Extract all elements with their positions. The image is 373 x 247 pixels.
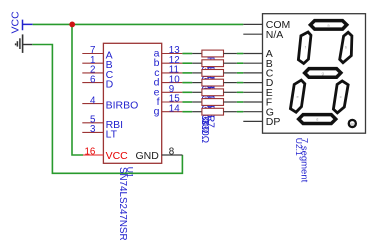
- power net VCC: [9, 11, 32, 34]
- pin E: [243, 91, 262, 93]
- pin 10 d: [162, 82, 183, 84]
- segment d: [296, 113, 338, 125]
- pin 13 a: [162, 53, 183, 55]
- pin A: [243, 53, 262, 55]
- IC body U1: [103, 43, 161, 163]
- wire ground to bottom rail: [32, 45, 182, 174]
- pin 6 D: [82, 82, 103, 84]
- segment g: [302, 67, 343, 79]
- segment c: [332, 79, 350, 115]
- svg-text:d: d: [316, 117, 318, 122]
- svg-text:SN74LS247NSR: SN74LS247NSR: [117, 167, 128, 241]
- svg-text:dp: dp: [350, 122, 354, 126]
- display body: [263, 14, 366, 134]
- resistor R3: [182, 70, 243, 105]
- ground: [16, 34, 33, 53]
- pin 15 f: [162, 101, 183, 103]
- segment f: [297, 30, 313, 65]
- svg-text:330Ω: 330Ω: [199, 119, 210, 144]
- VCC symbol: [23, 20, 33, 31]
- resistor R1: [182, 50, 243, 85]
- svg-text:VCC: VCC: [9, 11, 21, 34]
- pin 5 RBI: [82, 122, 103, 124]
- pin 4 BIRBO: [82, 103, 103, 105]
- svg-text:BIRBO: BIRBO: [106, 100, 139, 112]
- resistor R4: [182, 79, 243, 114]
- segment e: [289, 78, 306, 114]
- pin B: [243, 62, 262, 64]
- 7-segment display U2:1: [243, 14, 365, 183]
- pin 3 LT: [82, 131, 103, 133]
- wire VCC rail to COM: [33, 23, 244, 25]
- segment b: [338, 30, 353, 64]
- wire VCC drop to pin 16: [72, 24, 83, 155]
- segment a: [308, 19, 349, 31]
- pin G: [243, 111, 262, 113]
- pin DP: [243, 120, 262, 122]
- svg-text:3: 3: [90, 124, 96, 135]
- svg-text:16: 16: [84, 147, 95, 158]
- svg-text:c: c: [340, 94, 342, 99]
- IC U1 SN74LS247NSR: [82, 43, 182, 240]
- pin 12 b: [162, 62, 183, 64]
- svg-text:8: 8: [169, 147, 175, 158]
- pin 1 B: [82, 62, 103, 64]
- svg-text:VCC: VCC: [106, 150, 129, 162]
- svg-text:N/A: N/A: [266, 29, 284, 41]
- pin 7 A: [82, 53, 103, 55]
- svg-text:g: g: [154, 106, 160, 118]
- svg-text:6: 6: [90, 74, 96, 85]
- svg-text:LT: LT: [106, 128, 118, 140]
- resistor R7: [182, 108, 243, 143]
- svg-text:14: 14: [169, 103, 180, 114]
- svg-text:GND: GND: [135, 150, 159, 162]
- pin 11 c: [162, 72, 183, 74]
- pin 9 e: [162, 91, 183, 93]
- pin 16 VCC: [83, 154, 103, 156]
- pin F: [243, 101, 262, 103]
- pin 8 GND: [162, 154, 183, 156]
- pin N/A: [243, 33, 262, 35]
- pin 14 g: [162, 111, 183, 113]
- decimal point dp: [348, 119, 357, 128]
- pin C: [243, 72, 262, 74]
- resistor R5: [182, 89, 243, 124]
- resistor R6: [182, 99, 243, 134]
- pin D: [243, 82, 262, 84]
- svg-text:7 segment: 7 segment: [298, 138, 309, 183]
- svg-text:D: D: [106, 79, 114, 91]
- svg-text:4: 4: [90, 95, 96, 106]
- svg-text:DP: DP: [266, 116, 281, 128]
- pin 2 C: [82, 72, 103, 74]
- junction: [69, 22, 75, 28]
- svg-text:g: g: [322, 71, 324, 76]
- pin COM: [243, 23, 262, 25]
- resistor R2: [182, 60, 243, 95]
